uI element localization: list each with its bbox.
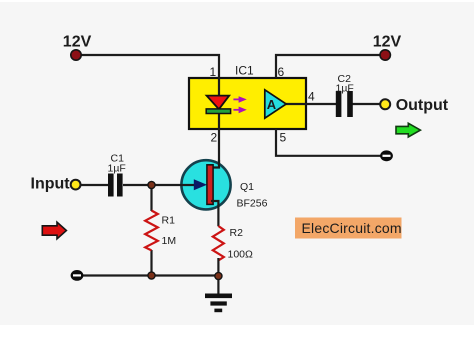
IC1 optocoupler body [189, 78, 306, 129]
svg-text:2: 2 [211, 131, 218, 145]
wire 12V right rail to pin 6 [276, 55, 381, 78]
LED cathode bar [206, 109, 230, 114]
svg-text:6: 6 [278, 65, 285, 79]
svg-text:1µF: 1µF [336, 83, 354, 95]
red input arrow [42, 222, 66, 239]
wire pin 5 to minus terminal [276, 129, 381, 156]
capacitor C2 [336, 91, 342, 117]
green output arrow [396, 123, 420, 137]
wire R2 to ground junction [217, 258, 219, 276]
svg-text:1M: 1M [162, 235, 177, 247]
wire gate into Q1 [152, 184, 196, 186]
wire pin 4 to C2 [306, 103, 336, 105]
node 12V left terminal [71, 50, 81, 60]
svg-text:Input: Input [31, 176, 71, 193]
wire pin 2 to Q1 drain [218, 129, 220, 168]
light arrow 1 [233, 98, 240, 100]
Q1 gate arrowhead [194, 179, 207, 190]
light arrow 2 [233, 109, 240, 111]
LED inside IC1 [207, 96, 230, 110]
wire R1 bottom lead [150, 250, 152, 276]
transistor Q1 body [181, 160, 230, 209]
Q1 source jog [211, 201, 218, 226]
svg-text:R2: R2 [230, 227, 244, 239]
wire ground rail [82, 274, 219, 276]
ElecCircuit.com logo [295, 218, 402, 239]
wire input to C1 [81, 184, 108, 186]
svg-text:100Ω: 100Ω [228, 249, 254, 261]
svg-text:IC1: IC1 [235, 64, 254, 78]
wire 12V left rail [80, 55, 219, 78]
resistor R1 zigzag [145, 211, 158, 251]
svg-text:BF256: BF256 [237, 198, 268, 210]
svg-text:R1: R1 [162, 215, 176, 227]
wire pin1 to pin2 through LED [218, 78, 220, 129]
wire amp output to box edge [285, 103, 306, 105]
svg-text:4: 4 [308, 90, 315, 104]
svg-text:1: 1 [210, 65, 217, 79]
wire C1 to gate node [123, 184, 152, 186]
svg-text:5: 5 [280, 131, 287, 145]
capacitor C1 [108, 174, 114, 197]
node input terminal [71, 180, 81, 190]
svg-text:1µF: 1µF [108, 163, 126, 175]
junction rail node [148, 272, 155, 279]
ground [205, 294, 232, 299]
node output terminal [380, 99, 390, 109]
Q1 channel bar [207, 165, 213, 205]
svg-text:Q1: Q1 [240, 181, 254, 193]
wire junction to ground [217, 276, 219, 294]
amplifier triangle inside IC1 [265, 90, 286, 118]
svg-text:12V: 12V [373, 33, 402, 50]
svg-text:Output: Output [396, 97, 449, 114]
wire C2 to output terminal [353, 103, 381, 105]
svg-text:A: A [267, 97, 277, 112]
node 12V right terminal [380, 50, 390, 60]
node minus terminal right [380, 150, 393, 161]
junction gate node [148, 181, 155, 188]
Q1 drain jog [211, 160, 219, 168]
node minus terminal bottom left [71, 270, 84, 281]
svg-text:12V: 12V [63, 33, 92, 50]
junction R2-ground node [215, 272, 222, 279]
svg-text:ElecCircuit.com: ElecCircuit.com [302, 220, 402, 236]
wire R1 top lead [150, 185, 152, 211]
resistor R2 zigzag [213, 226, 224, 260]
